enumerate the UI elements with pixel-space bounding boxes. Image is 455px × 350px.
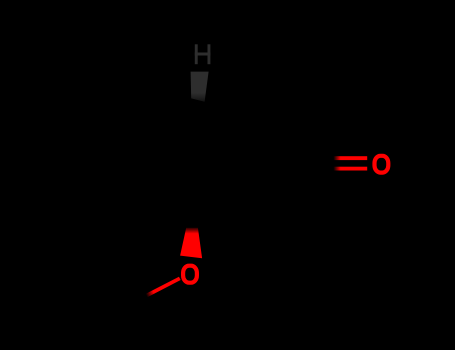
atom label H (ring-junction hydrogen)	[195, 44, 211, 64]
bold wedge bond C-H (gray, fades to black at ring carbon)	[191, 72, 209, 102]
atom label O (ketone oxygen)	[375, 156, 389, 173]
bond O-CH3 (red, fades to black at methyl carbon)	[146, 278, 180, 295]
atom label O (methoxy oxygen)	[183, 266, 197, 283]
carbonyl double bond C=O (red half, fades to black toward carbon)	[332, 156, 367, 160]
bold wedge bond C-O (red, fades to black at ring carbon)	[180, 228, 202, 258]
